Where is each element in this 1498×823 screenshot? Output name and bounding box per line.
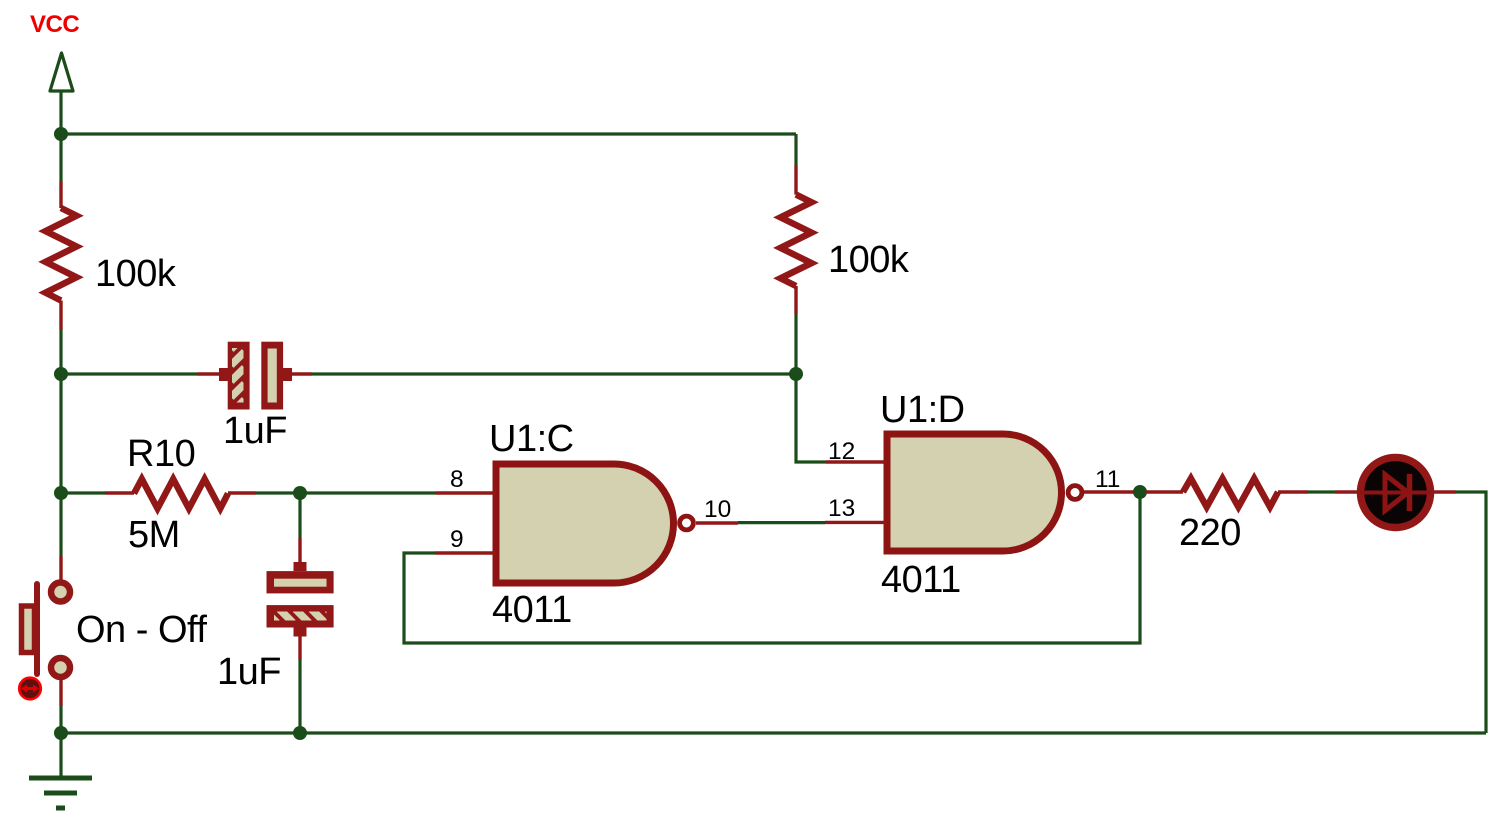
svg-text:10: 10 — [704, 496, 731, 523]
junction right at y374 — [789, 367, 803, 381]
wire left vertical middle — [59, 330, 62, 556]
resistor R10 5M — [105, 479, 256, 509]
resistor R3 220 — [1146, 479, 1308, 508]
wire button to ground rail — [59, 706, 62, 733]
svg-text:1uF: 1uF — [223, 410, 287, 452]
svg-text:100k: 100k — [828, 239, 910, 281]
nand gate U1:C output bubble — [680, 516, 694, 530]
wire pin9 feedback left — [404, 492, 1140, 643]
pin 13 lead — [825, 521, 887, 524]
LED D1 — [1335, 458, 1456, 528]
ground symbol — [29, 733, 92, 808]
junction ground rail left — [54, 726, 68, 740]
svg-text:8: 8 — [450, 466, 464, 493]
interactive toggle marker — [19, 678, 41, 700]
resistor R1 100k left — [46, 181, 77, 330]
resistor R2 100k right — [781, 165, 812, 314]
svg-text:220: 220 — [1179, 512, 1241, 554]
pin 8 lead — [435, 491, 496, 494]
wire right vertical to pin12 corner — [796, 314, 826, 462]
svg-text:11: 11 — [1095, 466, 1120, 493]
svg-text:1uF: 1uF — [217, 651, 281, 693]
pin 9 lead — [435, 551, 496, 554]
wire C2 bottom to ground rail — [298, 660, 301, 733]
junction at VCC rail left — [54, 127, 68, 141]
capacitor C1 1uF horizontal — [197, 336, 312, 413]
wire R3 to LED — [1308, 490, 1335, 493]
svg-text:VCC: VCC — [30, 11, 79, 38]
wire R10 row left — [61, 491, 105, 494]
pin 11 output lead — [1084, 490, 1146, 493]
svg-text:On - Off: On - Off — [76, 609, 207, 651]
svg-text:100k: 100k — [95, 253, 177, 295]
junction left at y493 — [54, 486, 68, 500]
svg-text:U1:D: U1:D — [880, 389, 965, 431]
nand gate U1:D output bubble — [1068, 486, 1082, 500]
pin 12 lead — [826, 460, 887, 463]
svg-text:9: 9 — [450, 526, 464, 553]
wire pin10 to pin13 — [738, 521, 825, 524]
wire LED to right edge and down — [1456, 492, 1486, 733]
wire horizontal node row y374 — [61, 372, 197, 375]
nand gate U1:C body — [496, 464, 674, 583]
junction node at x300 y493 — [293, 486, 307, 500]
svg-text:13: 13 — [828, 495, 855, 522]
svg-text:U1:C: U1:C — [489, 418, 574, 460]
svg-text:R10: R10 — [127, 433, 195, 475]
pin 10 output lead — [696, 521, 738, 524]
wire top horizontal — [61, 132, 796, 135]
push button SW1 On-Off — [22, 556, 71, 706]
svg-text:4011: 4011 — [881, 559, 961, 601]
wire left vertical top — [59, 134, 62, 181]
wire down from node x300 — [298, 493, 301, 538]
wire bottom ground rail — [61, 731, 1486, 734]
svg-text:12: 12 — [828, 438, 855, 465]
nand gate U1:D body — [887, 434, 1062, 551]
wire R10 row right — [256, 491, 435, 494]
svg-text:5M: 5M — [128, 514, 180, 556]
wire y374 to right — [312, 372, 796, 375]
junction output node x1140 — [1133, 485, 1147, 499]
capacitor C2 1uF vertical — [264, 538, 342, 660]
junction left at y374 — [54, 367, 68, 381]
power symbol VCC arrow — [50, 53, 73, 134]
wire right vertical from top rail — [794, 134, 797, 165]
svg-text:4011: 4011 — [492, 589, 572, 631]
junction ground rail x300 — [293, 726, 307, 740]
